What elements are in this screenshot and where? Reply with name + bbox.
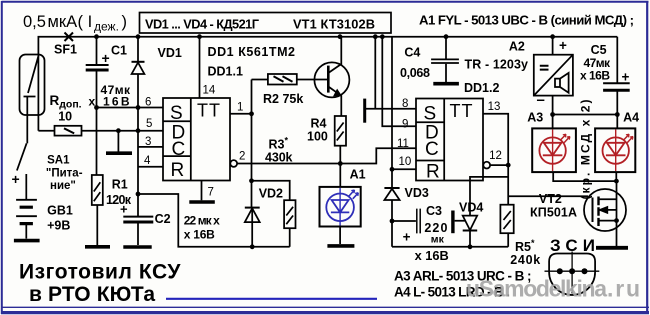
wire pin 13 output	[483, 114, 508, 205]
wire R2 to VT1 base	[297, 79, 328, 81]
transistor VT1 emitter with arrow	[329, 87, 341, 116]
component SF1 sensor body	[20, 55, 45, 116]
svg-text:uSamodelkina: uSamodelkina	[466, 276, 607, 302]
svg-text:0,5: 0,5	[23, 13, 46, 31]
led A1 box	[320, 187, 361, 227]
inverter bubble pin 12	[483, 162, 490, 169]
wire bottom rail right segment	[392, 246, 508, 248]
diode VD4 cathode bar	[463, 230, 478, 232]
buzzer A2 leads	[552, 37, 554, 129]
junction VD1/D-wire node	[136, 128, 141, 133]
op-chip DD1.1 outline	[163, 98, 230, 181]
transistor VT1 circle	[314, 62, 349, 97]
resistor Rdop leads	[38, 130, 163, 132]
svg-text:22 мк х: 22 мк х	[184, 214, 220, 228]
diode VD4 triangle	[463, 216, 478, 231]
ground bar A1	[327, 244, 354, 248]
wire C5 leads	[616, 37, 618, 129]
svg-text:A3: A3	[527, 110, 543, 124]
svg-text:3: 3	[145, 136, 151, 148]
junction C2 node	[136, 192, 141, 197]
wire pin 12 output	[490, 164, 508, 166]
svg-text:VD1 ... VD4 - КД521Г: VD1 ... VD4 - КД521Г	[145, 17, 259, 32]
wire pin 2 output net	[237, 148, 416, 163]
wire C1 node to R1	[96, 108, 98, 176]
border frame	[2, 1, 649, 3]
diode VD1 triangle	[132, 63, 145, 75]
capacitor C1 leads	[96, 37, 98, 108]
junction A2 supply node	[550, 34, 555, 39]
svg-text:1: 1	[237, 102, 243, 114]
wire VD4 to rail	[469, 231, 471, 247]
capacitor C4 plates	[431, 59, 459, 63]
svg-text:14: 14	[203, 85, 216, 97]
junction VD2 rail node	[250, 244, 255, 249]
svg-text:DD1.2: DD1.2	[464, 81, 499, 95]
wire supply drop to pin 9 (D input)	[382, 37, 416, 127]
svg-text:TR - 1203у: TR - 1203у	[465, 58, 529, 72]
transistor VT1 base bar	[327, 66, 330, 93]
svg-text:7: 7	[208, 187, 214, 199]
resistor R4 body	[335, 116, 346, 146]
svg-text:SF1: SF1	[54, 43, 77, 57]
svg-text:.ru: .ru	[607, 276, 640, 302]
resistor R2 body	[268, 74, 297, 85]
svg-text:мкА: мкА	[48, 13, 78, 31]
transistor VT1 collector	[329, 37, 341, 73]
capacitor C3 left plates	[417, 209, 420, 234]
svg-text:+: +	[102, 50, 110, 66]
svg-text:GB1: GB1	[47, 204, 73, 218]
svg-text:R: R	[171, 160, 185, 181]
svg-text:10: 10	[399, 156, 412, 168]
svg-text:VD2: VD2	[259, 187, 283, 201]
label current draw note	[23, 13, 127, 34]
svg-text:+: +	[120, 202, 128, 217]
ground bar C2	[123, 245, 151, 249]
svg-text:12: 12	[489, 150, 502, 162]
junction VD4 rail node	[468, 244, 473, 249]
wire tap to pin 4 (R input)	[138, 166, 163, 168]
switch SA1 blade	[17, 143, 27, 170]
junction C5/A4 node	[615, 112, 620, 117]
svg-text:DD1.1: DD1.1	[208, 65, 243, 79]
wire pin 14	[199, 37, 201, 98]
svg-text:11: 11	[397, 138, 409, 150]
junction C4 node	[444, 34, 449, 39]
svg-text:Изготовил КСУ: Изготовил КСУ	[19, 261, 181, 284]
svg-text:х 16В: х 16В	[184, 228, 215, 242]
led A4 red symbol	[603, 130, 634, 172]
svg-text:9: 9	[402, 119, 408, 131]
junction pin9 supply node	[380, 34, 385, 39]
junction pin10/VD3 node	[390, 167, 395, 172]
SF1 pendulum contact	[24, 56, 39, 97]
svg-text:R2 75k: R2 75k	[263, 92, 303, 106]
wire SF1 bottom lead	[26, 97, 28, 144]
wire A3-A4 bottom link to VT2 drain	[553, 172, 616, 181]
svg-text:C2: C2	[155, 212, 171, 226]
svg-text:VD1: VD1	[158, 46, 182, 60]
svg-text:+: +	[12, 171, 20, 187]
ground bar at D-input net	[106, 151, 132, 155]
capacitor C1 plates	[86, 64, 109, 66]
inverter bubble pin 2	[230, 160, 237, 167]
transistor VT2 drain lead	[600, 181, 617, 246]
capacitor C2 leads	[137, 194, 139, 245]
svg-text:x 16В: x 16В	[89, 94, 130, 108]
svg-text:C4: C4	[404, 46, 420, 60]
wire S-input net (pin 6)	[97, 107, 164, 109]
svg-text:R: R	[426, 162, 440, 183]
junction R4/A1 node	[338, 161, 343, 166]
svg-text:VD4: VD4	[459, 201, 483, 215]
svg-text:деж.: деж.	[94, 20, 119, 34]
svg-text:SA1: SA1	[47, 155, 70, 167]
led A1 blue symbol	[326, 188, 358, 226]
buzzer A2 equals sign	[540, 66, 549, 70]
svg-text:+: +	[622, 70, 630, 85]
ground bar VT2	[596, 246, 628, 250]
capacitor C2 plates	[123, 216, 153, 218]
svg-text:S: S	[424, 103, 437, 124]
wire C3 leads	[392, 220, 466, 222]
wire tap to pin 3 (C input)	[138, 146, 163, 148]
capacitor C4 lead top	[445, 37, 447, 59]
wire R1 to ground	[96, 205, 98, 245]
svg-text:C1: C1	[111, 44, 127, 58]
svg-text:2: 2	[239, 151, 245, 163]
resistor R1 body	[92, 175, 103, 205]
svg-text:120к: 120к	[106, 193, 132, 207]
transistor VT2 substrate lead with arrow	[600, 209, 617, 211]
svg-text:+: +	[559, 38, 567, 53]
svg-text:ЗСИ: ЗСИ	[550, 236, 595, 255]
transistor VT2 circle	[584, 189, 626, 231]
svg-text:13: 13	[488, 101, 501, 113]
svg-text:мк: мк	[431, 234, 445, 246]
svg-text:x 16В: x 16В	[415, 248, 449, 263]
junction pin1 node	[249, 111, 254, 116]
svg-text:–: –	[537, 92, 545, 109]
junction VT2 drain node	[614, 179, 619, 184]
svg-text:A2: A2	[509, 40, 525, 54]
junction VD1 top node	[136, 34, 141, 39]
resistor R5 body	[500, 205, 513, 234]
svg-text:10: 10	[58, 110, 72, 124]
wire bus to pin 10 / VD3 / C3	[391, 37, 393, 247]
ground bar pin 7	[189, 200, 215, 204]
wire gate drive to VT2	[508, 195, 588, 197]
svg-text:6: 6	[145, 97, 151, 109]
watermark site name	[466, 276, 640, 302]
svg-text:+: +	[403, 230, 411, 245]
wire A3-A4 top link	[553, 114, 618, 116]
wire R3 top lead	[252, 181, 290, 200]
wire C2 node branch to bottom rail	[138, 194, 290, 247]
wire R4 to A1	[339, 146, 341, 187]
led A3 box	[532, 128, 576, 172]
wire C4 to ground	[445, 64, 447, 82]
diode VD2 triangle	[245, 208, 260, 222]
svg-text:430k: 430k	[265, 150, 293, 164]
wire tap pin 10 (R input)	[392, 168, 416, 170]
diode VD3 cathode bar	[384, 187, 399, 189]
svg-text:A1: A1	[350, 168, 366, 182]
label box frame	[140, 13, 392, 34]
svg-text:DD1 К561ТМ2: DD1 К561ТМ2	[208, 45, 296, 59]
junction VD2 top node	[249, 178, 254, 183]
svg-text:"Пита-: "Пита-	[46, 168, 83, 180]
svg-text:S: S	[170, 103, 183, 124]
svg-text:x 16В: x 16В	[580, 68, 610, 82]
svg-text:ние": ние"	[50, 180, 76, 192]
piezo ZSI body	[549, 254, 595, 296]
junction C1 top node	[94, 34, 99, 39]
junction VT1 collector node	[338, 34, 343, 39]
svg-text:КП501А: КП501А	[530, 205, 577, 219]
diode VD3 triangle	[384, 189, 399, 200]
fuse-break SF1 X mark	[65, 33, 74, 42]
resistor Rdop body	[55, 126, 82, 136]
buzzer A2 box	[534, 55, 573, 96]
svg-text:+9В: +9В	[47, 219, 70, 233]
author underline	[166, 298, 377, 300]
wire pin 1 output	[230, 113, 252, 115]
transistor VT2 channel segments	[597, 197, 599, 227]
wire R5 to rail	[507, 233, 509, 247]
wire GB1 to ground	[25, 225, 27, 239]
wire pin 7	[201, 181, 203, 201]
wire R3 bottom lead	[289, 228, 291, 247]
ground bar C4	[433, 82, 459, 86]
led A3 red symbol	[539, 130, 570, 172]
svg-text:C: C	[172, 139, 186, 160]
svg-text:100: 100	[307, 129, 328, 143]
diode VD2 leads	[251, 208, 253, 247]
svg-text:в РТО КЮТа: в РТО КЮТа	[29, 283, 155, 306]
svg-text:TT: TT	[450, 101, 474, 121]
svg-text:240k: 240k	[510, 253, 540, 267]
wire tee to VD4	[470, 177, 508, 215]
svg-text:R1: R1	[112, 178, 128, 192]
transistor VT2 gate bar	[592, 198, 594, 223]
piezo ZSI crosshair	[545, 252, 600, 294]
wire E1 to pin 8 (S input)	[366, 108, 416, 110]
svg-text:): )	[122, 13, 128, 31]
junction VT2 source node	[614, 218, 619, 223]
svg-text:A4: A4	[623, 110, 639, 124]
op-chip DD1.2 outline	[416, 99, 483, 181]
junction C1/S-wire node	[94, 105, 99, 110]
svg-text:VT2: VT2	[539, 192, 562, 206]
transistor VT2 source lead	[600, 220, 617, 222]
junction VD3/C3 node	[390, 219, 395, 224]
svg-text:C: C	[425, 139, 439, 160]
capacitor C5 plates	[603, 82, 630, 84]
diode VD1 leads	[137, 37, 139, 194]
wire node Q1 vertical (pin1/R2/VD2)	[252, 80, 268, 208]
svg-text:8: 8	[402, 98, 408, 110]
svg-text:0,068: 0,068	[400, 66, 430, 80]
battery GB1 plates	[16, 200, 37, 216]
junction E1 supply node	[373, 34, 378, 39]
svg-text:VD3: VD3	[405, 186, 429, 200]
svg-text:A1 FYL - 5013 UBC - В (синий: A1 FYL - 5013 UBC - В (синий МСД) ;	[419, 13, 634, 28]
led A4 box	[595, 128, 635, 172]
junction ground tap node	[116, 128, 121, 133]
ground bar GB1	[14, 239, 40, 243]
buzzer A2 speaker icon	[555, 73, 569, 93]
svg-text:TT: TT	[197, 101, 221, 121]
ground bar R1	[85, 245, 110, 249]
wire top supply rail	[38, 37, 617, 131]
diode VD1 cathode bar	[132, 61, 145, 63]
wire A1 to ground	[339, 227, 341, 245]
resistor R3 body	[284, 200, 295, 228]
diode VD2 cathode bar	[245, 207, 260, 209]
junction pin12 node	[506, 163, 511, 168]
junction VD1/S-wire node	[136, 105, 141, 110]
wire SA1 to battery	[25, 174, 27, 200]
junction pin14 node	[197, 34, 202, 39]
svg-text:4: 4	[144, 155, 151, 167]
wire supply drop to E1 node	[374, 37, 376, 109]
capacitor C3 right plate	[451, 211, 454, 234]
svg-text:C3: C3	[426, 204, 442, 218]
svg-text:(кр. МСД х 2): (кр. МСД х 2)	[579, 100, 593, 200]
piezo ZSI pin dots	[557, 268, 588, 274]
svg-text:( I: ( I	[78, 13, 93, 31]
junction A2/A3 node	[550, 112, 555, 117]
sensor plate E1 bar	[363, 99, 366, 123]
svg-text:VT1 КТ3102В: VT1 КТ3102В	[293, 17, 375, 32]
svg-text:5: 5	[146, 118, 152, 130]
wire ground drop from D-input net	[117, 131, 119, 152]
